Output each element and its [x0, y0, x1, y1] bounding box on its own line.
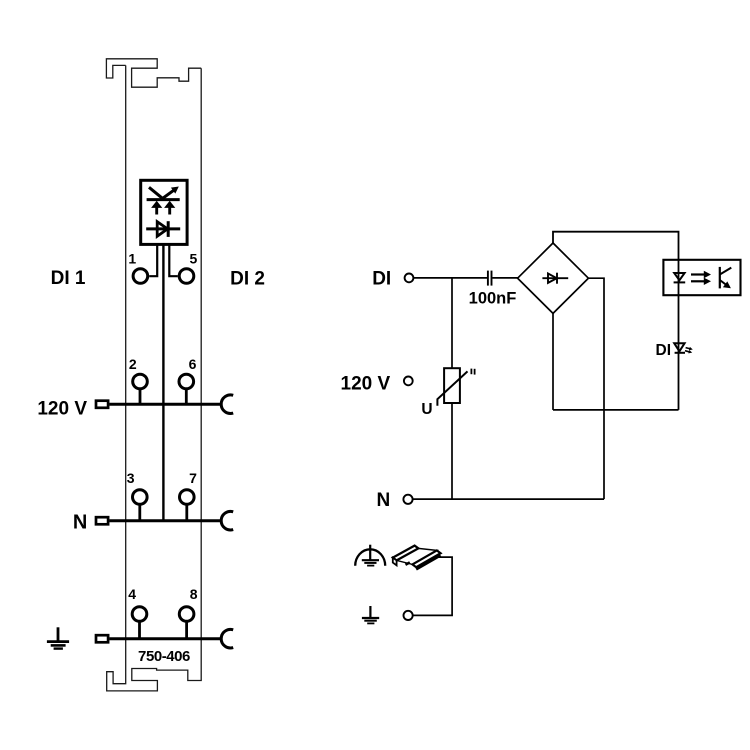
lead from U1 to terminal 1: [149, 244, 157, 276]
svg-text:DI: DI: [656, 342, 672, 359]
terminal 8: [179, 607, 194, 622]
terminal 2 stem: [139, 389, 142, 404]
svg-text:7: 7: [189, 470, 197, 486]
module 750-406 body outline: [106, 59, 201, 691]
terminal 6: [179, 374, 194, 389]
terminal 5: [179, 269, 194, 284]
terminal 6 stem: [185, 389, 188, 404]
LED display arrowhead: [171, 187, 179, 194]
terminal 3: [133, 490, 148, 505]
wire junction to varistor branch: [451, 278, 453, 368]
svg-text:5: 5: [190, 250, 198, 266]
wire DI to capacitor: [413, 277, 487, 279]
N plug connector: [96, 517, 108, 524]
terminal 7 stem: [185, 505, 188, 521]
svg-text:4: 4: [128, 586, 136, 602]
N jumper contact: [221, 511, 233, 530]
N terminal: [403, 495, 412, 504]
svg-text:DI: DI: [372, 268, 391, 289]
earth plug connector: [96, 635, 108, 642]
status LED DI emission arrows: [685, 347, 693, 354]
120V field rail: [110, 403, 223, 406]
capacitor C1 plates: [488, 271, 492, 286]
status LED DI: [674, 343, 685, 353]
optocoupler phototransistor: [720, 267, 732, 289]
wire bridge top over to LED chain: [553, 232, 679, 410]
wire bridge right to N: [588, 278, 604, 499]
terminal 3 stem: [138, 505, 141, 521]
earth jumper contact: [221, 629, 233, 648]
ground symbol right: [362, 606, 379, 623]
svg-text:U: U: [421, 401, 432, 418]
DI input terminal: [405, 274, 414, 283]
svg-text:2: 2: [129, 356, 137, 372]
earth terminal circle: [404, 611, 413, 620]
svg-text:N: N: [73, 511, 87, 533]
wire DIN rail to earth terminal: [413, 557, 452, 615]
diode inside bridge: [542, 273, 568, 284]
120V plug connector: [96, 401, 108, 408]
terminal 7: [180, 490, 195, 505]
svg-text:8: 8: [190, 586, 198, 602]
optocoupler light arrow lower: [691, 278, 711, 285]
svg-text:1: 1: [128, 250, 136, 266]
optocoupler box U2: [663, 260, 740, 295]
LED up-arrow right: [164, 201, 175, 215]
svg-text:DI 1: DI 1: [51, 268, 86, 289]
svg-text:DI 2: DI 2: [230, 268, 265, 289]
120V jumper contact: [221, 395, 233, 414]
internal bus wire: [162, 244, 164, 520]
optocoupler light arrow upper: [691, 271, 711, 278]
earth field rail: [110, 637, 223, 640]
N field rail: [110, 519, 223, 522]
terminal 4: [132, 607, 147, 622]
120V reference terminal: [404, 377, 413, 386]
wire bottom horizontal to LED chain: [553, 409, 679, 411]
wire varistor to N: [451, 403, 453, 499]
terminal 1: [133, 269, 148, 284]
svg-text:120 V: 120 V: [37, 398, 87, 419]
status indicator box U1: [141, 180, 187, 244]
varistor RV1: [437, 368, 474, 406]
DIN rail icon: [393, 546, 441, 570]
svg-text:120 V: 120 V: [341, 373, 391, 394]
LED display symbol inside U1: [147, 187, 180, 199]
LED up-arrow left: [151, 201, 162, 215]
lead from U1 to terminal 5: [169, 244, 178, 276]
bridge rectifier: [518, 243, 589, 313]
optocoupler LED: [674, 273, 686, 282]
terminal 4 stem: [138, 622, 141, 639]
svg-text:3: 3: [127, 470, 135, 486]
svg-text:N: N: [376, 490, 390, 511]
svg-text:750-406: 750-406: [138, 648, 190, 665]
shield earth symbol: [355, 545, 385, 566]
terminal 2: [133, 374, 148, 389]
wire N: [413, 498, 604, 500]
svg-text:6: 6: [189, 356, 197, 372]
ground symbol left: [47, 627, 69, 648]
wire bridge bottom: [552, 313, 554, 410]
terminal 8 stem: [185, 622, 188, 639]
diode D1 inside U1: [146, 221, 180, 237]
svg-text:100nF: 100nF: [469, 290, 517, 308]
wire capacitor to bridge: [492, 277, 517, 279]
